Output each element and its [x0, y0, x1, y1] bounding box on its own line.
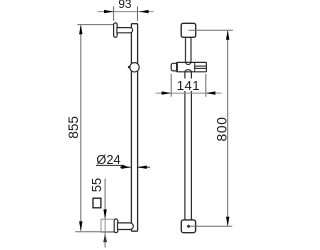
svg-text:855: 855 — [66, 116, 81, 139]
side view slider knob circle — [130, 63, 139, 72]
label D24 right arrow — [137, 166, 147, 169]
dimension 141 left arrow — [162, 91, 172, 94]
svg-text:141: 141 — [177, 78, 200, 93]
label square55 upper arrow — [103, 209, 106, 219]
label D24 left arrow line — [120, 166, 131, 168]
dimension 93 right arrow — [139, 10, 149, 13]
label D24 underline — [96, 165, 127, 167]
label D24 right arrow line — [137, 166, 150, 168]
dimension 93 right extension line — [137, 6, 139, 21]
front view stem left line — [185, 37, 187, 62]
dimension 800 bottom arrow — [226, 217, 229, 227]
dimension 855 top arrow — [79, 25, 82, 35]
front view rail right line — [190, 72, 192, 220]
dimension 800 bottom extension line — [189, 225, 233, 227]
label square55 glyph — [93, 198, 101, 208]
side view top wall plate — [114, 23, 118, 37]
label D24 left arrow — [121, 166, 131, 169]
label square55 leader line upper — [104, 179, 106, 219]
side view slider knob nub — [128, 66, 131, 68]
dimension 800 top arrow — [226, 30, 229, 40]
side view top arm — [117, 28, 133, 33]
side view rail — [131, 24, 137, 232]
label square55 leader line through plate — [104, 219, 106, 232]
front view holder neck bottom curve — [185, 70, 192, 72]
dimension 800 top extension line — [189, 29, 233, 31]
label square55 lower arrow — [103, 233, 106, 243]
dimension 855 top extension line — [77, 24, 114, 26]
front view base dot — [187, 225, 190, 228]
front view stem right line — [190, 37, 192, 62]
dimension 93 dim line — [98, 11, 154, 13]
dimension 855 bottom extension line — [75, 231, 117, 233]
front view holder clamp slot — [195, 66, 207, 68]
dimension 93 left extension line — [113, 6, 115, 21]
label square55 leader line lower — [104, 233, 106, 248]
dimension 141 dim line — [156, 92, 222, 94]
svg-text:93: 93 — [118, 0, 132, 11]
front view holder left cap — [171, 63, 176, 71]
svg-text:55: 55 — [89, 178, 104, 192]
dimension 141 text halo — [177, 79, 202, 92]
dimension 855 dim line — [80, 26, 82, 231]
dimension 93 left arrow — [104, 10, 114, 13]
front view holder divider left — [176, 62, 178, 71]
dimension 141 right extension line — [205, 74, 207, 97]
dimension 141 right arrow — [206, 91, 216, 94]
svg-text:Ø24: Ø24 — [96, 152, 120, 167]
side view bottom wall plate — [114, 219, 118, 233]
front view holder neck top curve — [186, 62, 192, 64]
svg-text:800: 800 — [215, 116, 230, 141]
square plate thin outline (bottom bracket) — [101, 219, 114, 232]
dimension 855 bottom arrow — [79, 221, 82, 231]
front view holder bar — [177, 62, 207, 71]
front view holder divider right — [194, 62, 196, 71]
dimension 800 dim line — [227, 31, 229, 226]
side view bottom arm — [118, 223, 134, 230]
front view base square — [181, 220, 195, 233]
front view head square — [181, 23, 196, 37]
dimension 141 left extension line — [170, 74, 172, 97]
front view rail left line — [184, 72, 186, 220]
